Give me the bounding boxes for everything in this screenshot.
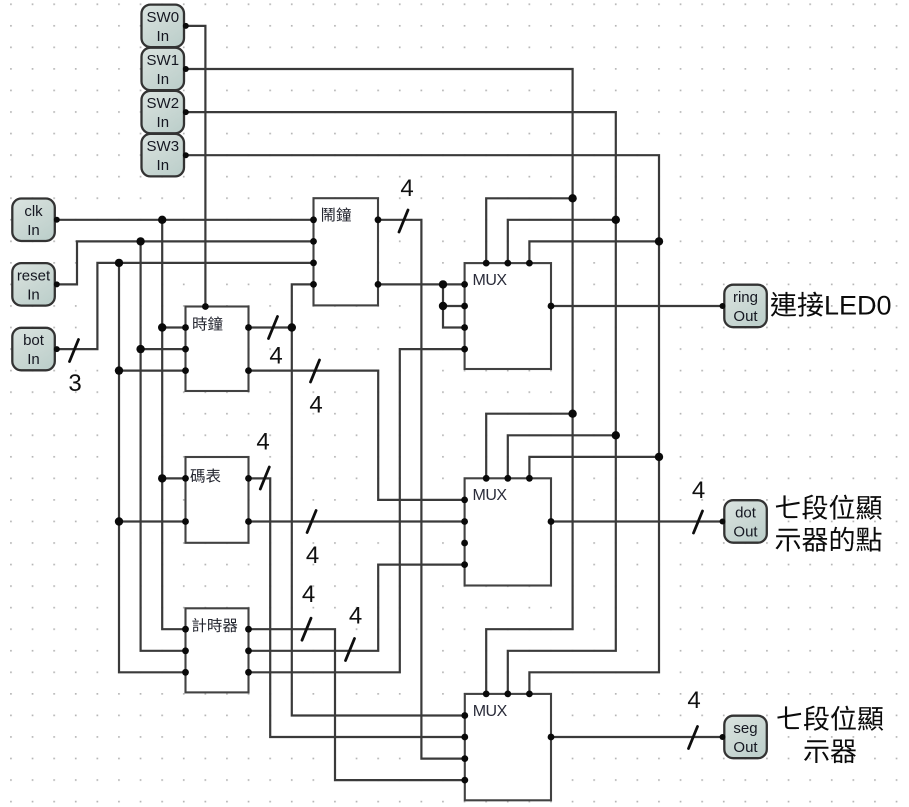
annotation 七段位顯示器 (7-seg display) xyxy=(777,706,883,764)
wire SW3 trunk to MUX3 sel C xyxy=(186,155,659,694)
wire alarm out2 to MUX1 in1 xyxy=(378,283,465,285)
wire clk to alarm in1 xyxy=(57,219,314,221)
bus slash MUX2 output (4) xyxy=(694,511,703,533)
wire clock out1 net to alarm in4 and MUX3 in1 xyxy=(292,284,465,715)
junction clk branch / clock in1 xyxy=(158,323,166,331)
svg-text:4: 4 xyxy=(400,175,413,202)
input pin clk xyxy=(12,199,60,242)
svg-text:reset: reset xyxy=(17,267,51,284)
wire alarm out2 branch to MUX1 in2 xyxy=(443,305,465,307)
junction clk / clk-branch xyxy=(158,216,166,224)
svg-text:MUX: MUX xyxy=(473,487,508,504)
svg-text:4: 4 xyxy=(306,542,319,569)
svg-text:Out: Out xyxy=(733,308,758,325)
wire alarm out1 bus to MUX3 in3 xyxy=(378,220,465,759)
bus slash timer out2 (4) xyxy=(346,639,355,661)
bus slash alarm out1 (4) xyxy=(399,210,408,232)
svg-text:4: 4 xyxy=(302,581,315,608)
wire alarm out2 branch vertical xyxy=(443,284,465,327)
wire SW0 to clock top pin xyxy=(186,26,206,307)
wire SW1 trunk to MUX3 sel A xyxy=(186,69,573,694)
svg-text:seg: seg xyxy=(733,720,757,737)
wire timer out3 bus to MUX1 in4 xyxy=(249,349,465,672)
bus slash bot wire (3) xyxy=(70,340,79,362)
wire SW2 trunk to MUX3 sel B xyxy=(186,112,616,694)
svg-text:MUX: MUX xyxy=(473,272,508,289)
wire clk vertical branch xyxy=(162,220,185,629)
wire timer out2 bus to MUX2 in4 xyxy=(249,565,465,651)
svg-text:ring: ring xyxy=(733,289,758,306)
wire bot bus to alarm in3 xyxy=(57,263,314,349)
svg-text:In: In xyxy=(27,286,40,303)
junction SW1 / MUX1 sel A xyxy=(568,194,576,202)
junction bot branch / clock in3 xyxy=(115,366,123,374)
annotation 連接LED0 (connect LED0) xyxy=(771,291,892,321)
junction SW2 / MUX1 sel B xyxy=(612,216,620,224)
junction bot / bot-branch xyxy=(115,259,123,267)
svg-text:MUX: MUX xyxy=(473,703,508,720)
wire SW2 branch to MUX1 sel B xyxy=(508,220,616,263)
svg-text:In: In xyxy=(157,28,170,45)
wire stopwatch out2 bus to MUX2 in2 xyxy=(249,520,465,522)
svg-text:LED0: LED0 xyxy=(824,291,892,321)
output pin dot xyxy=(720,500,767,543)
svg-text:3: 3 xyxy=(68,370,81,397)
wire bot stub to clock in3 xyxy=(119,370,186,372)
output pin ring xyxy=(720,285,767,328)
svg-text:In: In xyxy=(27,351,40,368)
wire MUX3 output bus to seg xyxy=(551,736,723,738)
wire SW3 branch to MUX2 sel C xyxy=(529,457,659,478)
wire reset stub to clock in2 xyxy=(141,348,186,350)
junction SW3 / MUX1 sel C xyxy=(655,237,663,245)
junction clk branch / stopwatch in1 xyxy=(158,474,166,482)
svg-text:clk: clk xyxy=(24,203,43,220)
wire bot vertical branch xyxy=(119,263,186,672)
bus slash clock out2 (4) xyxy=(311,360,320,382)
svg-text:SW1: SW1 xyxy=(147,52,180,69)
svg-text:4: 4 xyxy=(687,687,700,714)
wire SW2 branch to MUX2 sel B xyxy=(508,435,616,478)
subcircuit U4 計時器 (timer) xyxy=(182,608,252,692)
wire SW1 branch to MUX1 sel A xyxy=(486,198,572,263)
svg-text:In: In xyxy=(157,71,170,88)
svg-text:SW3: SW3 xyxy=(147,138,180,155)
wire MUX1 output to ring xyxy=(551,305,723,307)
junction clock out1 / vertical xyxy=(288,323,296,331)
bus slash clock out1 (4) xyxy=(269,317,278,339)
wire clock out1 to junction xyxy=(249,326,292,328)
input pin SW2 xyxy=(142,91,189,134)
wire stopwatch out1 bus to MUX3 in2 xyxy=(249,478,465,737)
input pin SW1 xyxy=(142,48,189,90)
wire reset to alarm in2 xyxy=(57,241,314,284)
wire clock out2 bus to MUX2 in1 xyxy=(249,371,465,500)
svg-text:4: 4 xyxy=(256,429,269,456)
svg-text:4: 4 xyxy=(349,603,362,630)
bus slash stopwatch out1 (4) xyxy=(260,467,269,489)
multiplexer U6 MUX (dot) xyxy=(461,475,554,586)
bus slash MUX3 output (4) xyxy=(689,727,698,749)
svg-text:In: In xyxy=(27,222,40,239)
wire reset vertical branch xyxy=(141,241,186,650)
svg-text:bot: bot xyxy=(23,332,45,349)
junction SW3 / MUX2 sel C xyxy=(655,453,663,461)
wire MUX2 output bus to dot xyxy=(551,520,723,522)
svg-text:4: 4 xyxy=(309,392,322,419)
junction SW2 / MUX2 sel B xyxy=(612,431,620,439)
wire SW1 branch to MUX2 sel A xyxy=(486,414,572,479)
svg-text:SW0: SW0 xyxy=(147,9,180,26)
junction alarm branch / MUX1 in2 xyxy=(439,302,447,310)
svg-text:In: In xyxy=(157,157,170,174)
wire clk stub to stopwatch in1 xyxy=(162,477,185,479)
input pin SW3 xyxy=(142,134,189,177)
subcircuit U1 鬧鐘 (alarm) xyxy=(310,198,381,305)
junction reset branch / clock in2 xyxy=(136,345,144,353)
subcircuit U2 時鐘 (clock) xyxy=(182,303,252,391)
svg-text:Out: Out xyxy=(733,524,758,541)
junction reset / reset-branch xyxy=(136,237,144,245)
wire timer out1 bus to MUX3 in4 xyxy=(249,629,465,780)
wire bot stub to stopwatch in2 xyxy=(119,520,186,522)
annotation 七段位顯示器的點 (7-seg display dot) xyxy=(775,495,881,552)
wire SW3 branch to MUX1 sel C xyxy=(529,241,659,263)
svg-text:SW2: SW2 xyxy=(147,95,180,112)
input pin bot xyxy=(12,328,60,371)
junction bot branch / stopwatch in2 xyxy=(115,517,123,525)
junction alarm out2 / branch xyxy=(439,280,447,288)
bus slash timer out1 (4) xyxy=(302,618,311,640)
svg-text:dot: dot xyxy=(735,505,757,522)
multiplexer U7 MUX (seg) xyxy=(461,691,554,801)
wire clk stub to clock in1 xyxy=(162,326,185,328)
subcircuit U3 碼表 (stopwatch) xyxy=(182,457,252,543)
svg-text:In: In xyxy=(157,114,170,131)
junction SW1 / MUX2 sel A xyxy=(568,410,576,418)
output pin seg xyxy=(720,716,767,759)
bus slash stopwatch out2 (4) xyxy=(307,511,316,533)
input pin SW0 xyxy=(142,5,189,48)
svg-text:Out: Out xyxy=(733,739,758,756)
multiplexer U5 MUX (ring) xyxy=(461,260,554,369)
svg-text:4: 4 xyxy=(692,477,705,504)
input pin reset xyxy=(12,263,60,306)
svg-text:4: 4 xyxy=(269,343,282,370)
